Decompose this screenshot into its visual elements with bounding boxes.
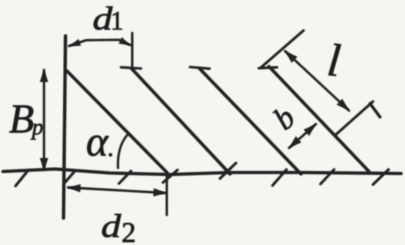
- main vertical wall line: [64, 36, 66, 218]
- slat diagonal 2: [132, 69, 230, 174]
- hatch tick 5: [220, 163, 236, 179]
- top tick of slat 4: [259, 66, 277, 69]
- arrowhead B bottom: [40, 158, 48, 171]
- top tick of slat 2: [121, 67, 141, 68]
- top tick of slat 3: [190, 67, 210, 69]
- arrowhead d2 left: [68, 184, 81, 192]
- dimension l lower perpendicular tick: [336, 102, 373, 135]
- dimension l line: [285, 51, 349, 111]
- slat diagonal 3: [200, 69, 302, 175]
- svg-text:p: p: [30, 115, 44, 140]
- dimension B line: [43, 70, 45, 170]
- hatch tick 2: [65, 172, 75, 184]
- svg-text:2: 2: [122, 217, 137, 245]
- hatch tick 1: [16, 171, 29, 187]
- hatch tick 6: [273, 170, 287, 186]
- arrowhead b upper-right: [304, 124, 316, 136]
- arrowhead d1 right: [119, 37, 131, 45]
- hatch tick 3: [119, 171, 131, 184]
- dimension l upper perpendicular tick: [262, 31, 304, 68]
- svg-text:B: B: [9, 96, 34, 142]
- dimension b line: [289, 124, 316, 148]
- arrowhead d2 right: [153, 188, 166, 196]
- arrowhead B top: [40, 69, 48, 82]
- arrowhead d1 left: [69, 39, 81, 46]
- arrowhead b lower-left: [289, 136, 301, 148]
- hatch tick 8: [373, 170, 389, 185]
- slat diagonal 5 (partial at right edge): [370, 104, 380, 118]
- dimension d1 line: [69, 40, 130, 46]
- hatch tick 4: [163, 170, 178, 183]
- svg-text:l: l: [325, 34, 343, 86]
- slat diagonal 1 (hypotenuse): [67, 71, 167, 173]
- dimension d2 right extension line: [166, 173, 168, 215]
- hatch tick 7: [321, 170, 335, 185]
- arrowhead l upper: [285, 51, 297, 63]
- svg-text:b: b: [266, 99, 301, 137]
- small dot after alpha: [109, 153, 113, 157]
- dimension d1 right extension line: [131, 33, 133, 68]
- angle alpha arc: [118, 134, 129, 169]
- arrowhead l lower: [337, 99, 349, 111]
- svg-text:1: 1: [111, 7, 124, 36]
- svg-text:α: α: [86, 120, 109, 166]
- dimension d2 line: [68, 188, 166, 194]
- svg-text:d: d: [101, 209, 122, 245]
- slat diagonal 4: [269, 67, 369, 172]
- ground baseline: [3, 169, 401, 175]
